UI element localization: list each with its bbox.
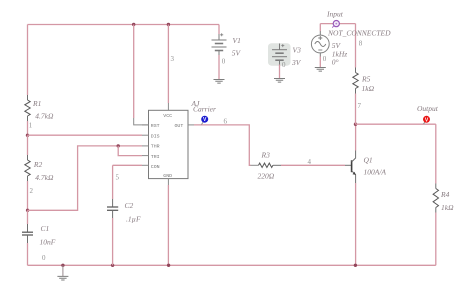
junction THR/TRI xyxy=(117,144,120,147)
svg-text:1kΩ: 1kΩ xyxy=(441,203,454,212)
svg-text:OUT: OUT xyxy=(175,123,184,129)
battery V1 xyxy=(212,33,242,57)
svg-text:3V: 3V xyxy=(291,58,302,67)
junction RST on top rail xyxy=(132,23,135,26)
svg-text:C2: C2 xyxy=(125,201,134,210)
wire emitter down to bottom rail xyxy=(355,183,357,265)
transistor Q1 xyxy=(345,151,386,184)
wire top rail corner to V1 xyxy=(218,25,220,35)
wire CON horizontal xyxy=(113,164,142,166)
svg-text:1: 1 xyxy=(29,122,33,130)
AC source V2 xyxy=(311,24,347,67)
svg-text:RST: RST xyxy=(151,123,160,129)
pin stub RST xyxy=(142,124,149,126)
capacitor C1 xyxy=(22,210,56,246)
svg-text:R4: R4 xyxy=(440,190,450,199)
svg-text:R5: R5 xyxy=(361,74,371,83)
wire THR/TRI net: node2 right then up xyxy=(28,146,142,210)
wire left rail upper (to R1) xyxy=(27,25,29,96)
wire right rail down to R4 xyxy=(435,124,437,183)
wire R5 bottom to output node xyxy=(355,89,357,94)
wire input horizontal xyxy=(320,23,355,25)
wire V1 bottom to ground xyxy=(218,51,220,56)
junction GND bottom xyxy=(167,264,170,267)
svg-text:0°: 0° xyxy=(332,58,339,67)
wire output horizontal xyxy=(356,123,436,125)
wire RST corner gray xyxy=(134,118,149,125)
svg-text:0: 0 xyxy=(222,58,226,66)
wire R1 bottom to node 1 junction xyxy=(27,116,29,121)
junction node 2 xyxy=(26,209,29,212)
pin stub TRI xyxy=(142,155,149,157)
svg-text:0: 0 xyxy=(42,254,46,262)
pin stub OUT xyxy=(188,124,194,126)
wire R4 bottom to bottom rail xyxy=(435,208,437,213)
svg-text:2: 2 xyxy=(30,187,34,195)
svg-text:4: 4 xyxy=(308,158,312,166)
wire node1 down to R2 xyxy=(27,135,29,155)
wire GND vertical to bottom rail xyxy=(167,185,169,265)
resistor R1 xyxy=(25,99,54,121)
wire collector up to output node xyxy=(355,124,357,150)
svg-text:8: 8 xyxy=(359,40,363,48)
wire top rail xyxy=(28,24,220,26)
wire AC bottom to ground xyxy=(319,53,321,57)
resistor R2 xyxy=(25,160,54,182)
op-amp U1 555 timer body xyxy=(149,110,189,179)
svg-text:CON: CON xyxy=(151,164,160,170)
wire C1 bottom to bottom rail xyxy=(27,235,29,243)
junction emitter bottom xyxy=(354,264,357,267)
resistor R3 xyxy=(258,151,275,181)
svg-text:V1: V1 xyxy=(233,36,241,45)
junction ground tap xyxy=(61,264,64,267)
svg-text:R1: R1 xyxy=(32,99,41,108)
svg-text:DIS: DIS xyxy=(151,133,160,139)
probe Carrier xyxy=(191,99,217,125)
battery V3 xyxy=(272,44,302,68)
svg-text:1kΩ: 1kΩ xyxy=(362,84,375,93)
junction VCC on top rail xyxy=(167,23,170,26)
ground V1 xyxy=(214,80,225,84)
wire DIS net horizontal xyxy=(28,134,143,136)
svg-text:VCC: VCC xyxy=(163,113,172,119)
svg-text:Q1: Q1 xyxy=(364,156,373,165)
ground AC xyxy=(315,68,326,72)
wire R3 to transistor base xyxy=(273,164,281,166)
svg-text:Output: Output xyxy=(417,104,439,113)
probe Output xyxy=(417,104,439,124)
pin stub CON xyxy=(142,164,149,166)
svg-text:4.7kΩ: 4.7kΩ xyxy=(35,173,54,182)
battery V3 selected highlight xyxy=(268,43,291,65)
svg-text:V3: V3 xyxy=(293,46,302,55)
ground bottom xyxy=(57,265,68,280)
svg-text:0: 0 xyxy=(323,55,327,63)
probe Input xyxy=(326,10,344,28)
junction output node xyxy=(354,123,357,126)
wire VCC vertical xyxy=(167,25,169,104)
svg-text:.1µF: .1µF xyxy=(126,215,141,224)
svg-text:3: 3 xyxy=(171,55,175,63)
resistor R5 xyxy=(353,73,375,94)
svg-text:Carrier: Carrier xyxy=(193,105,216,114)
pin stub GND xyxy=(167,179,169,185)
svg-text:5: 5 xyxy=(116,174,120,182)
wire V3 bottom to ground xyxy=(279,60,281,64)
resistor R4 xyxy=(433,189,454,213)
svg-text:0: 0 xyxy=(282,61,286,69)
svg-text:100A/A: 100A/A xyxy=(364,167,387,176)
capacitor C2 xyxy=(107,165,141,223)
wire C2 bottom to bottom rail xyxy=(112,210,114,218)
pin stub DIS xyxy=(142,134,149,136)
svg-text:7: 7 xyxy=(358,102,362,110)
svg-text:5V: 5V xyxy=(232,48,242,57)
wire R2 bottom to node 2 junction xyxy=(27,176,29,181)
wire OUT net xyxy=(194,125,251,165)
junction node 1 xyxy=(26,134,29,137)
wire TRI branch xyxy=(118,146,142,156)
svg-text:GND: GND xyxy=(163,173,172,179)
svg-text:4.7kΩ: 4.7kΩ xyxy=(35,112,54,121)
wire R5 top to input wire xyxy=(355,24,357,68)
svg-text:Input: Input xyxy=(326,10,344,19)
svg-text:C1: C1 xyxy=(41,224,50,233)
svg-text:THR: THR xyxy=(151,144,160,150)
svg-text:R3: R3 xyxy=(261,151,271,160)
junction C2 bottom xyxy=(111,264,114,267)
pin stub THR xyxy=(142,145,149,147)
svg-text:6: 6 xyxy=(224,117,228,125)
svg-text:TRI: TRI xyxy=(151,154,160,160)
pin stub VCC xyxy=(167,103,169,110)
svg-text:220Ω: 220Ω xyxy=(258,171,275,180)
svg-text:10nF: 10nF xyxy=(40,238,56,247)
svg-text:NOT_CONNECTED: NOT_CONNECTED xyxy=(327,29,391,38)
svg-text:R2: R2 xyxy=(33,160,43,169)
ground V3 xyxy=(274,79,285,83)
wire bottom rail xyxy=(28,264,436,266)
wire RST vertical xyxy=(133,25,135,119)
